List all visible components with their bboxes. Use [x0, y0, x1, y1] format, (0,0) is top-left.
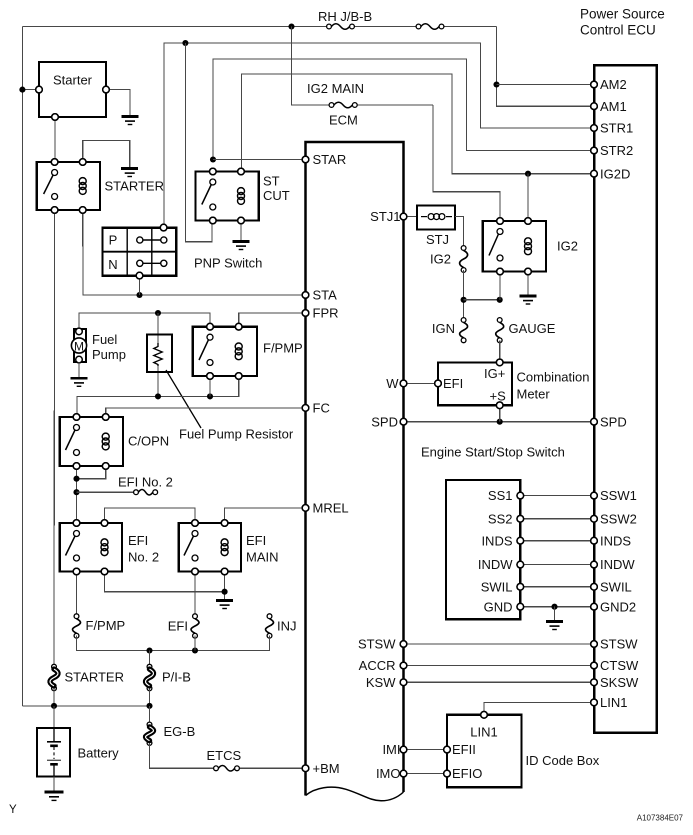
svg-text:CTSW: CTSW	[600, 658, 639, 673]
wire: EG-B to +BM	[150, 743, 306, 768]
node: coil ground junction	[222, 589, 228, 595]
fuse EFI No. 2	[134, 489, 158, 495]
label GAUGE	[509, 321, 556, 336]
wire KSW-SKSW	[404, 681, 595, 683]
terminal ECM FC	[302, 401, 330, 416]
wire: battery to starter	[22, 89, 39, 91]
wire: EFI No.2 coil to EFI MAIN switch	[105, 508, 196, 523]
svg-text:ETCS: ETCS	[207, 748, 242, 763]
svg-text:P/I-B: P/I-B	[162, 670, 191, 685]
terminal ECM STSW	[358, 637, 407, 652]
svg-text:LIN1: LIN1	[470, 725, 497, 740]
node: IGN junction	[461, 297, 467, 303]
wire: EFI No.2 switch to F/PMP fuse	[76, 572, 78, 617]
wire: STJ to IG2 fuse	[455, 217, 464, 248]
terminal ECM SPD	[371, 414, 407, 429]
terminal SS SWIL	[481, 579, 524, 594]
terminal starter left	[36, 86, 43, 93]
svg-text:INJ: INJ	[277, 619, 297, 634]
svg-text:STR2: STR2	[600, 143, 633, 158]
svg-text:+BM: +BM	[313, 761, 340, 776]
ground EFI relays	[216, 601, 233, 609]
terminal ECM MREL	[302, 501, 348, 516]
battery	[37, 728, 70, 777]
callout line Fuel Pump Resistor	[166, 370, 201, 428]
wire: STARTER relay coil to STA line	[83, 210, 306, 295]
component ID Code Box	[444, 712, 522, 788]
wire: crossover IG2/GAUGE	[464, 299, 500, 301]
terminal ECU SSW1	[591, 488, 637, 503]
node: PNP junction on STA line	[136, 292, 142, 298]
svg-text:EFI: EFI	[443, 376, 463, 391]
ECM main box (torn bottom)	[306, 142, 404, 801]
wire: starter bottom to STARTER relay	[54, 117, 56, 162]
terminal ECU SPD	[591, 414, 627, 429]
node: GND junction	[551, 604, 557, 610]
ground starter	[122, 117, 139, 125]
svg-text:IG2D: IG2D	[600, 166, 630, 181]
wire: fuel pump to ground	[78, 362, 80, 378]
svg-text:MREL: MREL	[313, 501, 349, 516]
svg-text:ID Code Box: ID Code Box	[526, 753, 600, 768]
label F/PMP fuse	[86, 618, 126, 633]
wire: SPD line	[404, 421, 595, 423]
svg-text:F/PMP: F/PMP	[86, 618, 126, 633]
svg-text:MAIN: MAIN	[246, 550, 279, 565]
wire: STAR/ST CUT to STR2 line	[213, 59, 594, 160]
terminal ECM W	[386, 376, 407, 391]
svg-text:KSW: KSW	[366, 675, 396, 690]
label ETCS	[207, 748, 242, 763]
label IG2 MAIN	[307, 81, 364, 96]
terminal ECM STA	[302, 288, 337, 303]
ground ST CUT	[233, 242, 250, 250]
relay EFI MAIN	[179, 520, 279, 575]
relay EFI No. 2	[60, 520, 159, 575]
node: P/I-B junction	[146, 647, 152, 653]
node: EG-B junction	[146, 703, 152, 709]
svg-text:STARTER: STARTER	[65, 670, 124, 685]
svg-text:STJ1: STJ1	[370, 209, 400, 224]
terminal ECM KSW	[366, 675, 407, 690]
svg-text:Battery: Battery	[78, 746, 120, 761]
svg-text:EFI No. 2: EFI No. 2	[118, 475, 173, 490]
fuse GAUGE	[496, 318, 504, 343]
wire SWIL to SWIL	[520, 586, 594, 588]
label EG-B	[164, 724, 196, 739]
svg-text:Y: Y	[9, 804, 17, 816]
terminal ECM IMO	[376, 766, 407, 781]
terminal ECU GND2	[591, 599, 636, 614]
svg-text:PNP Switch: PNP Switch	[194, 256, 262, 271]
svg-text:EFII: EFII	[452, 742, 476, 757]
svg-text:STSW: STSW	[600, 637, 638, 652]
wire INDS to INDS	[520, 540, 594, 542]
wire: STAR line	[213, 159, 306, 161]
svg-text:INDS: INDS	[481, 533, 512, 548]
wire GND to GND2	[520, 606, 594, 608]
svg-text:STAR: STAR	[313, 152, 347, 167]
svg-text:No. 2: No. 2	[128, 550, 159, 565]
svg-text:SWIL: SWIL	[481, 579, 513, 594]
wire: battery bus	[22, 688, 149, 706]
wire: AM2 branch	[497, 84, 595, 86]
svg-text:AM2: AM2	[600, 77, 627, 92]
wire: to battery	[53, 706, 55, 728]
svg-text:IG2: IG2	[430, 252, 451, 267]
terminal starter bottom	[52, 114, 59, 121]
label STARTER link	[65, 670, 124, 685]
wire: GAUGE fuse to IG+	[499, 340, 501, 362]
svg-text:LIN1: LIN1	[600, 695, 627, 710]
fuse IGN	[460, 318, 468, 343]
label Y marker	[9, 804, 17, 816]
svg-text:W: W	[386, 376, 399, 391]
terminal ECU IG2D	[591, 166, 631, 181]
svg-text:Pump: Pump	[92, 347, 126, 362]
terminal SS SS1	[488, 488, 524, 503]
svg-text:A107384E07: A107384E07	[637, 814, 684, 823]
node: EFI No.2 fuse junction	[73, 489, 79, 495]
label IG2 fuse	[430, 252, 451, 267]
label Fuel Pump	[92, 332, 126, 362]
svg-text:IG+: IG+	[484, 366, 505, 381]
wire: relay coils to ground	[105, 572, 225, 601]
terminal ECM ACCR	[359, 658, 407, 673]
wire: branch to ST CUT switch bottom	[185, 43, 212, 242]
svg-text:EFI: EFI	[246, 533, 266, 548]
svg-text:F/PMP: F/PMP	[263, 341, 303, 356]
label Combination Meter	[517, 370, 590, 402]
node: EFI fuse junction	[192, 647, 198, 653]
wire: IG2 fuse to IGN fuse	[463, 270, 465, 320]
svg-text:STJ: STJ	[426, 232, 449, 247]
svg-text:SKSW: SKSW	[600, 675, 639, 690]
label INJ fuse	[277, 619, 297, 634]
svg-text:SSW2: SSW2	[600, 511, 637, 526]
wire: F/PMP switch bottom	[209, 376, 211, 396]
svg-text:EG-B: EG-B	[164, 724, 196, 739]
relay F/PMP	[193, 323, 303, 379]
svg-text:+S: +S	[490, 388, 507, 403]
wire: GND to ground	[554, 607, 556, 621]
node: junction to ST CUT switch bottom	[182, 40, 188, 46]
node: IG2D branch junction	[525, 171, 531, 177]
wire: P/I-B drop	[149, 651, 151, 667]
wire ACCR-CTSW	[404, 665, 595, 667]
wire: IG2 relay coil to ground	[527, 272, 529, 296]
fuse RH J/B-B (right)	[416, 24, 444, 30]
wire IMI-EFII	[404, 749, 448, 751]
svg-text:SS1: SS1	[488, 488, 513, 503]
wire: ST CUT coil to ground	[240, 221, 242, 242]
relay IG2	[483, 218, 578, 275]
svg-text:SPD: SPD	[600, 414, 627, 429]
ground GND2	[546, 622, 563, 630]
svg-text:SS2: SS2	[488, 511, 513, 526]
node: GAUGE junction	[497, 297, 503, 303]
wire: C/OPN outputs join	[77, 466, 106, 523]
relay STARTER	[37, 159, 164, 214]
svg-text:STARTER: STARTER	[105, 179, 164, 194]
wire: drop to AM2/AM1	[497, 27, 595, 107]
svg-text:EFI: EFI	[128, 533, 148, 548]
node: battery junction	[51, 703, 57, 709]
terminal ECU SKSW	[591, 675, 639, 690]
terminal ECU STR2	[591, 143, 634, 158]
terminal ECU INDW	[591, 557, 636, 572]
svg-text:SSW1: SSW1	[600, 488, 637, 503]
label Fuel Pump Resistor	[179, 427, 294, 442]
label IGN	[432, 321, 455, 336]
label EFI fuse	[168, 619, 188, 634]
ground battery	[45, 792, 64, 800]
terminal SS SS2	[488, 511, 524, 526]
node: STAR line junction	[210, 156, 216, 162]
fusible link P/I-B	[146, 664, 154, 690]
wire: W to EFI	[404, 382, 439, 384]
svg-text:SPD: SPD	[371, 414, 398, 429]
label STJ	[426, 232, 449, 247]
label PNP Switch	[194, 256, 262, 271]
fuse ETCS	[214, 766, 240, 772]
svg-text:AM1: AM1	[600, 99, 627, 114]
terminal SS INDS	[481, 533, 523, 548]
label EFI No. 2	[118, 475, 173, 490]
fuse INJ	[266, 614, 274, 638]
fusible link STARTER	[50, 664, 58, 690]
label Engine Start/Stop Switch	[421, 445, 565, 460]
relay ST CUT	[196, 168, 290, 224]
wire: ST CUT coil to IG2D line	[242, 74, 595, 174]
wire: STARTER relay coil to ground	[83, 140, 130, 168]
label ECM	[329, 113, 358, 128]
svg-text:Combination: Combination	[517, 370, 590, 385]
terminal ECM +BM	[302, 761, 339, 776]
svg-text:ECM: ECM	[329, 113, 358, 128]
svg-text:ACCR: ACCR	[359, 658, 396, 673]
svg-text:EFI: EFI	[168, 619, 188, 634]
svg-text:EFIO: EFIO	[452, 766, 482, 781]
terminal ECM STAR	[302, 152, 346, 167]
terminal ECU SWIL	[591, 579, 632, 594]
svg-text:IMO: IMO	[376, 766, 401, 781]
terminal starter right	[103, 86, 110, 93]
wire: IG2 MAIN fused line	[292, 27, 501, 222]
node: C/OPN join	[73, 476, 79, 482]
svg-text:STSW: STSW	[358, 637, 396, 652]
resistor Fuel Pump Resistor	[147, 335, 172, 373]
svg-text:INDW: INDW	[478, 557, 513, 572]
fuse IG2 MAIN	[329, 102, 357, 108]
wire: battery feed left vertical	[21, 27, 23, 706]
svg-text:GAUGE: GAUGE	[509, 321, 556, 336]
wire: IG2D branch to IG2 relay coil	[527, 174, 529, 221]
wire: EG-B drop	[149, 706, 151, 725]
watermark A107384E07	[637, 814, 684, 823]
svg-text:IG2: IG2	[557, 239, 578, 254]
svg-text:GND: GND	[484, 599, 513, 614]
wire: RH J/B-B top line	[22, 26, 496, 28]
svg-text:FPR: FPR	[313, 306, 339, 321]
node: junction on RH J/B-B line	[288, 23, 294, 29]
svg-text:Starter: Starter	[53, 73, 93, 88]
terminal SS INDW	[478, 557, 524, 572]
component Engine Start/Stop Switch box	[446, 480, 520, 619]
wire: FPR left segment (pump/resistor to F/PMP switch)	[79, 313, 210, 331]
terminal ECM FPR	[302, 306, 338, 321]
terminal ECU AM2	[591, 77, 627, 92]
svg-text:IG2 MAIN: IG2 MAIN	[307, 81, 364, 96]
svg-text:RH J/B-B: RH J/B-B	[318, 9, 372, 24]
svg-text:SWIL: SWIL	[600, 579, 632, 594]
wire: fuse bottoms bus	[77, 636, 270, 651]
node: F/PMP switch bottom junction	[207, 393, 213, 399]
terminal ECU STSW	[591, 637, 639, 652]
node: starter feed junction	[19, 87, 25, 93]
svg-text:IGN: IGN	[432, 321, 455, 336]
label ID Code Box	[526, 753, 600, 768]
svg-text:C/OPN: C/OPN	[128, 434, 169, 449]
ground STARTER relay coil	[121, 169, 138, 177]
svg-text:STA: STA	[313, 288, 338, 303]
wire IMO-EFIO	[404, 773, 448, 775]
fuse IG2	[460, 246, 468, 273]
label RH J/B-B	[318, 9, 372, 24]
svg-text:GND2: GND2	[600, 599, 636, 614]
label Battery	[78, 746, 120, 761]
ECU box	[594, 65, 657, 733]
wire: F/PMP bottom net	[77, 376, 239, 417]
wire: FPR terminal to F/PMP coil	[239, 313, 306, 327]
fuse EFI	[191, 614, 199, 638]
terminal ECU STR1	[591, 121, 634, 136]
wire: EFI MAIN switch to EFI fuse	[194, 572, 196, 617]
svg-text:STR1: STR1	[600, 121, 633, 136]
component Starter box	[39, 62, 106, 117]
wire SS2 to SSW2	[520, 518, 594, 520]
wire INDW to INDW	[520, 564, 594, 566]
label P/I-B	[162, 670, 191, 685]
terminal ECU INDS	[591, 533, 632, 548]
svg-text:Power Source: Power Source	[580, 7, 665, 22]
fusible link EG-B	[146, 722, 154, 745]
wire: MREL to EFI MAIN coil	[225, 508, 306, 523]
svg-text:N: N	[108, 257, 117, 272]
fuse STJ box	[404, 206, 456, 230]
svg-text:Meter: Meter	[517, 387, 551, 402]
terminal ECU CTSW	[591, 658, 639, 673]
wire: EFI fuse to bus	[194, 636, 196, 651]
fuse F/PMP	[73, 614, 81, 638]
component Fuel Pump motor	[71, 328, 86, 363]
wire: resistor vertical	[157, 313, 159, 396]
wire: FC line	[106, 408, 306, 417]
wire SS1 to SSW1	[520, 495, 594, 497]
terminal ECU LIN1	[591, 695, 628, 710]
wire: battery to ground	[53, 777, 55, 792]
terminal ECU AM1	[591, 99, 627, 114]
node: resistor bottom junction	[155, 393, 161, 399]
terminal ECM IMI	[382, 742, 406, 757]
terminal ECU SSW2	[591, 511, 637, 526]
svg-text:IMI: IMI	[382, 742, 400, 757]
wire: PNP bottom to STA line	[139, 276, 141, 295]
wire: PNP to STR1 line	[164, 43, 594, 228]
switch PNP	[103, 224, 177, 279]
svg-text:P: P	[109, 233, 118, 248]
svg-text:Fuel Pump Resistor: Fuel Pump Resistor	[179, 427, 294, 442]
terminal SS GND	[484, 599, 524, 614]
wire: +S to SPD line	[499, 405, 501, 421]
wire: EFI No.2 fuse stub	[77, 491, 134, 493]
relay C/OPN	[60, 414, 169, 470]
svg-text:Fuel: Fuel	[92, 332, 117, 347]
svg-text:INDW: INDW	[600, 557, 635, 572]
wire LIN1	[484, 702, 594, 714]
svg-text:Control ECU: Control ECU	[580, 23, 656, 38]
node: +S junction on SPD	[497, 419, 503, 425]
terminal rings overlay	[36, 81, 598, 777]
wire STSW	[404, 643, 595, 645]
ground IG2 relay	[520, 296, 537, 304]
component Combination Meter box	[435, 359, 512, 409]
svg-text:Engine Start/Stop Switch: Engine Start/Stop Switch	[421, 445, 565, 460]
fuse RH J/B-B (left)	[327, 24, 355, 30]
svg-text:INDS: INDS	[600, 533, 631, 548]
wire: IG2 relay switch to GAUGE junction	[499, 272, 501, 300]
svg-text:FC: FC	[313, 401, 330, 416]
svg-text:M: M	[74, 339, 84, 353]
ground fuel pump	[71, 378, 88, 386]
svg-text:CUT: CUT	[263, 188, 290, 203]
svg-text:ST: ST	[263, 174, 280, 189]
node: resistor junction top	[155, 310, 161, 316]
wire: starter to ground	[106, 90, 130, 116]
terminal ECM STJ1	[370, 209, 407, 224]
label Power Source Control ECU	[580, 7, 665, 38]
wire: STARTER relay switch to fusible link	[53, 210, 56, 667]
node: AM2 branch junction	[493, 81, 499, 87]
